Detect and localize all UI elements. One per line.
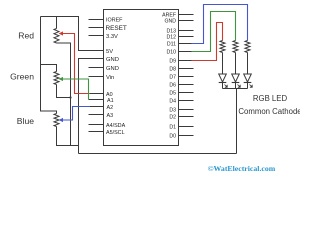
- svg-text:D11: D11: [167, 42, 176, 48]
- wire cathode bus: [223, 88, 248, 90]
- pin D8: [169, 67, 193, 73]
- pin D11: [167, 42, 194, 48]
- pin D7: [169, 75, 193, 81]
- svg-text:Vin: Vin: [106, 75, 114, 81]
- LED2 (green): [232, 74, 241, 89]
- pin D6: [169, 83, 193, 89]
- wire GND bus: [79, 153, 237, 155]
- svg-text:D6: D6: [169, 83, 176, 89]
- wire D11 to resistor R3 (blue): [192, 5, 248, 44]
- svg-text:A3: A3: [107, 113, 114, 119]
- pin D5: [169, 91, 193, 97]
- svg-text:Common Cathode: Common Cathode: [238, 107, 300, 116]
- svg-text:GND: GND: [164, 19, 176, 25]
- pin A2: [89, 105, 114, 111]
- pin A5/SCL: [89, 130, 125, 136]
- pin D10: [166, 50, 193, 56]
- svg-text:D5: D5: [169, 91, 176, 97]
- pin A0: [89, 92, 113, 98]
- pin D9: [169, 59, 193, 65]
- LED3 (blue): [244, 74, 253, 89]
- wire blue wiper to A2: [61, 107, 90, 121]
- wire R1 to LED1: [222, 53, 224, 75]
- wire red wiper to A0: [61, 34, 90, 94]
- pin D1: [169, 125, 193, 131]
- svg-text:D12: D12: [166, 35, 176, 41]
- svg-text:D2: D2: [169, 115, 176, 121]
- wire 5V stub to top rail: [41, 17, 104, 51]
- svg-text:GND: GND: [106, 57, 119, 63]
- svg-text:©WatElectrical.com: ©WatElectrical.com: [208, 164, 276, 173]
- svg-text:Red: Red: [18, 31, 34, 41]
- pin D13: [166, 29, 193, 35]
- wire R3 to LED3: [247, 53, 249, 75]
- wire green pot bottom: [57, 85, 71, 98]
- svg-text:Green: Green: [10, 72, 34, 82]
- junction green/red bottoms: [69, 96, 71, 98]
- pin GND (right): [164, 19, 193, 25]
- resistor R3: [245, 41, 250, 53]
- potentiometer (Red): [54, 29, 59, 44]
- wiper arrow red: [59, 31, 63, 35]
- svg-text:D3: D3: [169, 108, 176, 114]
- svg-text:RESET: RESET: [106, 25, 127, 32]
- potentiometer (Green): [54, 72, 59, 85]
- wire green wiper to A1: [61, 79, 89, 100]
- pin IOREF: [89, 18, 124, 24]
- wiper arrow green: [59, 77, 63, 81]
- pin D4: [169, 99, 193, 105]
- wire D9 to resistor R1 (red): [192, 23, 223, 61]
- pin RESET: [89, 25, 127, 32]
- wire left rail: [40, 17, 42, 112]
- svg-text:A2: A2: [107, 105, 114, 111]
- svg-text:D7: D7: [169, 75, 176, 81]
- svg-text:Blue: Blue: [17, 116, 34, 126]
- resistor R2: [233, 41, 238, 53]
- svg-text:A5/SCL: A5/SCL: [106, 130, 125, 136]
- svg-text:A4/SDA: A4/SDA: [106, 123, 126, 129]
- wire D10 to resistor R2 (green): [192, 12, 236, 52]
- pin A4/SDA: [89, 123, 126, 129]
- wiper arrow blue: [59, 118, 63, 122]
- wire green pot top branch: [41, 65, 57, 72]
- wire blue pot top branch: [41, 111, 57, 114]
- svg-text:D0: D0: [169, 134, 176, 140]
- pin A1: [89, 98, 114, 104]
- pin GND (power 2): [89, 66, 119, 72]
- svg-text:D10: D10: [166, 50, 176, 56]
- wire common cathode to GND: [236, 89, 238, 154]
- pin D12: [166, 35, 193, 41]
- LED1 (red): [219, 74, 228, 89]
- pin D0: [169, 134, 193, 140]
- svg-text:GND: GND: [106, 66, 119, 72]
- svg-text:IOREF: IOREF: [106, 18, 123, 24]
- pin 3.3V: [89, 34, 119, 40]
- svg-text:D1: D1: [169, 125, 176, 131]
- resistor R1: [220, 41, 225, 53]
- pin Vin: [89, 75, 115, 81]
- pin GND (power 1): [79, 57, 119, 63]
- svg-text:5V: 5V: [106, 49, 113, 55]
- svg-text:RGB LED: RGB LED: [253, 94, 288, 103]
- wire GND pin down to bus: [79, 59, 104, 154]
- svg-text:A1: A1: [107, 98, 114, 104]
- potentiometer (Blue): [54, 114, 59, 127]
- svg-text:3.3V: 3.3V: [106, 34, 118, 40]
- wire red pot bottom: [57, 43, 71, 146]
- microcontroller U1 body: [104, 10, 179, 146]
- pin D2: [169, 115, 193, 121]
- wire red pot top: [56, 17, 58, 29]
- pin 5V: [79, 49, 114, 55]
- pin D3: [169, 108, 193, 114]
- svg-text:D8: D8: [169, 67, 176, 73]
- svg-text:D4: D4: [169, 99, 176, 105]
- pin AREF: [162, 13, 193, 19]
- wire blue pot bottom: [57, 127, 79, 146]
- svg-text:D9: D9: [169, 59, 176, 65]
- wire R2 to LED2: [235, 53, 237, 75]
- pin A3: [89, 113, 114, 119]
